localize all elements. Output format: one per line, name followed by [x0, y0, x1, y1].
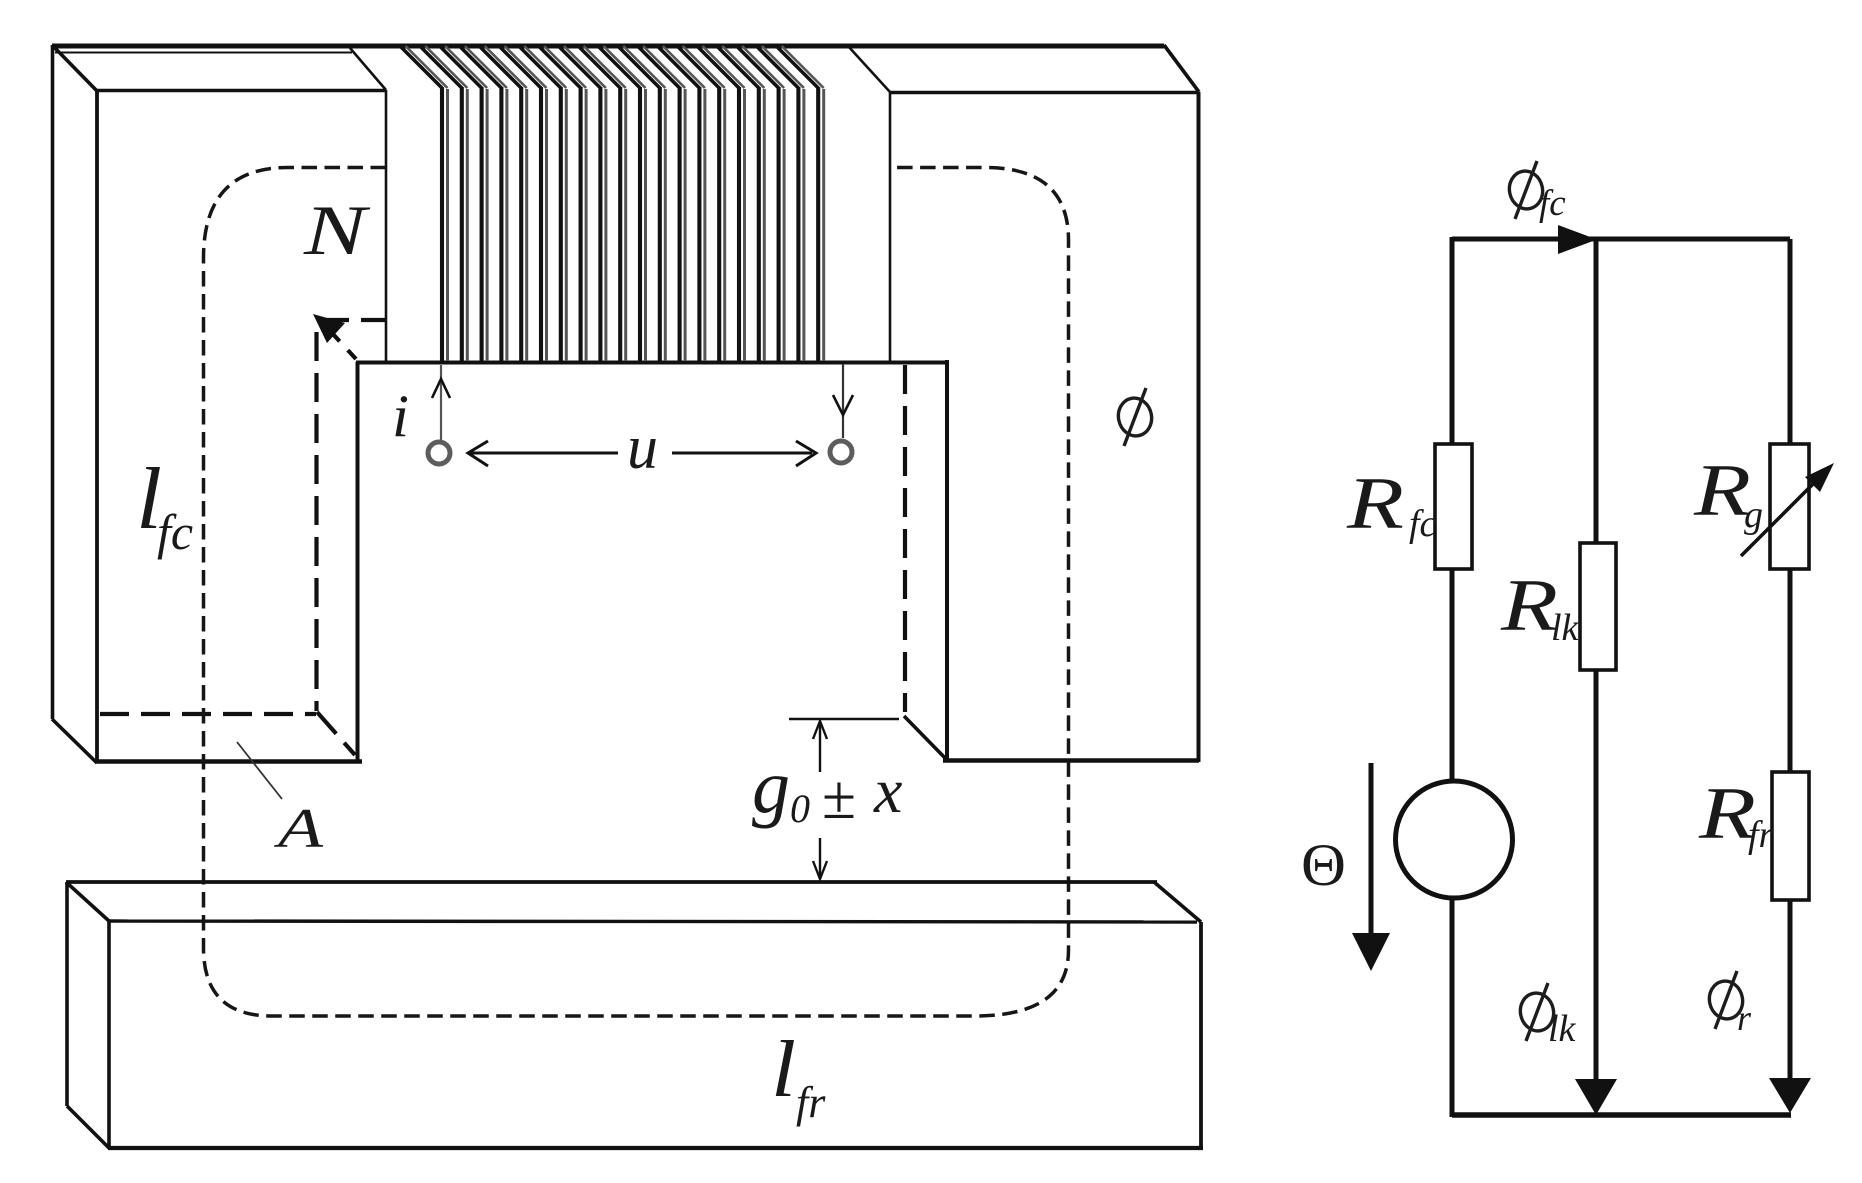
hidden window back edges (dashed) [100, 320, 905, 755]
svg-text:A: A [273, 798, 324, 860]
svg-text:R: R [1500, 565, 1558, 647]
svg-text:R: R [1693, 450, 1751, 532]
mean flux path loop (dashed) [204, 168, 1069, 1017]
armature front bottom edge [108, 1146, 1203, 1150]
bottom wire [1452, 1112, 1791, 1118]
reluctance R_lk [1580, 543, 1616, 670]
left branch wire lower [1450, 896, 1455, 1117]
left leg front-left vertical edge [95, 90, 99, 763]
window left inner edge [356, 362, 360, 762]
reluctance R_fc [1435, 444, 1472, 569]
core top back edge [52, 44, 1164, 49]
right branch wire upper [1788, 239, 1793, 444]
svg-text:u: u [627, 414, 658, 482]
right leg front-right vertical edge [1197, 92, 1201, 762]
current arrow i (up) [432, 379, 450, 398]
voltage arrow left [470, 452, 618, 455]
air gap dimension lower arrow [819, 838, 821, 878]
left leg front bottom edge [96, 759, 362, 763]
left leg / yoke front top edge [96, 89, 386, 93]
armature front-right vertical edge [1199, 922, 1203, 1148]
svg-text:±: ± [822, 764, 856, 832]
top wire [1452, 237, 1790, 242]
right branch wire middle [1788, 569, 1793, 772]
right leg front top edge [889, 91, 1199, 95]
winding block top-left depth edge [350, 48, 386, 90]
current terminal right wire [842, 364, 844, 438]
svg-text:fc: fc [1539, 183, 1566, 224]
svg-text:i: i [392, 383, 409, 449]
right leg hidden back-left vertical edge [903, 365, 907, 712]
window right inner edge [945, 360, 949, 762]
window back-left bottom depth edge [317, 712, 355, 755]
middle branch wire upper [1594, 239, 1599, 543]
armature front-left vertical edge [107, 921, 111, 1148]
svg-text:R: R [1346, 463, 1404, 545]
svg-text:fr: fr [796, 1078, 826, 1127]
flux arrow phi_lk at middle branch bottom [1575, 1079, 1617, 1115]
winding turns (N turns) [400, 46, 824, 361]
armature bottom-left depth edge [67, 1106, 109, 1148]
right leg bottom-left depth edge [904, 716, 947, 760]
voltage arrow right [672, 452, 812, 455]
label phi (right leg flux) [1115, 388, 1155, 446]
svg-text:lk: lk [1548, 1008, 1577, 1050]
svg-text:g: g [752, 745, 790, 829]
current arrow down (into right terminal) [833, 395, 853, 415]
left leg top-left depth edge [52, 45, 97, 91]
air gap dimension upper arrow [819, 722, 821, 772]
yoke bottom edge across window [356, 361, 947, 365]
svg-text:Θ: Θ [1301, 832, 1346, 898]
svg-text:r: r [1737, 998, 1752, 1038]
svg-text:l: l [771, 1026, 796, 1114]
left leg hidden back bottom edge [100, 712, 316, 716]
label phi_r [1706, 971, 1746, 1029]
winding block right side edge [889, 92, 892, 361]
window back top edge [320, 318, 386, 322]
svg-text:lk: lk [1551, 607, 1580, 649]
reluctance R_fr [1772, 772, 1809, 900]
armature back-left vertical edge [65, 882, 69, 1106]
svg-text:fc: fc [1409, 503, 1437, 545]
winding block top-right depth edge [848, 46, 890, 92]
flux arrow phi_r at right branch bottom [1769, 1078, 1811, 1113]
MMF direction arrow [1369, 763, 1374, 940]
flux arrow phi_fc on top wire [1558, 225, 1597, 254]
flux path left-top arc [204, 168, 1069, 1017]
armature front top edge [108, 921, 1197, 922]
air gap dimension tick [789, 718, 899, 720]
variable air-gap reluctance R_g [1770, 444, 1809, 569]
label phi_fc [1506, 161, 1546, 219]
window back-left top depth edge [320, 320, 356, 359]
right leg front bottom edge [943, 758, 1199, 762]
arrowhead on window back edge (flux direction) [313, 314, 345, 343]
current terminal left wire [440, 365, 442, 441]
svg-text:0: 0 [790, 786, 810, 831]
armature top-right depth edge [1154, 882, 1201, 922]
armature top-left depth edge [66, 882, 109, 921]
armature back top edge [66, 880, 1157, 884]
left branch wire middle [1450, 569, 1455, 783]
MMF source circle [1396, 781, 1513, 898]
left leg back top edge [55, 52, 352, 54]
right branch wire lower [1788, 900, 1793, 1080]
right terminal circle [830, 441, 852, 463]
left branch wire upper [1450, 237, 1455, 444]
svg-text:g: g [1744, 494, 1763, 536]
left leg bottom-left depth edge [52, 719, 97, 763]
label phi_lk [1517, 983, 1557, 1041]
right leg top-right depth edge [1164, 45, 1199, 92]
left leg back-left vertical edge [51, 45, 55, 719]
left terminal circle [428, 442, 450, 464]
svg-text:N: N [303, 192, 371, 270]
middle branch wire lower [1594, 670, 1599, 1082]
svg-text:x: x [873, 755, 902, 826]
label A with pointer [237, 742, 282, 799]
winding block left side edge [385, 90, 388, 362]
window back-left vertical edge [314, 332, 318, 711]
svg-text:fr: fr [1748, 814, 1774, 856]
svg-text:fc: fc [157, 504, 193, 560]
